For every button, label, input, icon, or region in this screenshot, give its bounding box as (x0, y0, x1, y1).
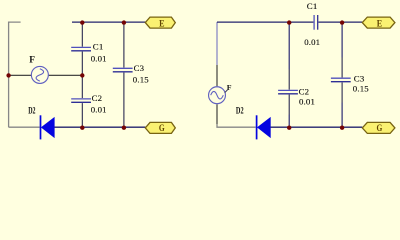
svg-text:E: E (159, 19, 165, 30)
junction at bottom of C2 branch (80, 126, 84, 130)
svg-text:0.01: 0.01 (91, 53, 107, 63)
svg-text:C1: C1 (93, 41, 104, 51)
svg-text:C2: C2 (92, 93, 103, 103)
svg-text:F: F (227, 83, 232, 92)
svg-text:D2: D2 (236, 106, 244, 116)
junction on left rail at F (6, 73, 10, 77)
capacitor C3 (113, 22, 133, 127)
capacitor C2 (71, 75, 91, 127)
wire top rail (navy) (72, 21, 145, 23)
diode D2 (right circuit) (257, 115, 271, 139)
wire top rail left part (navy) (217, 21, 313, 23)
port E (right circuit) (362, 17, 395, 30)
port G (right circuit) (362, 122, 395, 134)
source F (AC source, left circuit) (9, 66, 83, 83)
svg-text:E: E (377, 19, 383, 30)
source F (AC source, right circuit, inline vertical) (209, 65, 226, 124)
svg-text:G: G (377, 123, 383, 134)
junction at bottom of C3 branch (right) (340, 126, 344, 130)
svg-text:C1: C1 (307, 1, 318, 11)
junction at top of C2 branch (right) (287, 20, 291, 24)
diode D2 (left circuit) (41, 115, 55, 139)
capacitor C1 (right circuit, series in top rail) (314, 15, 318, 30)
wire bottom-left segment to diode (gray) (9, 126, 40, 128)
capacitor C2 (right circuit) (278, 22, 298, 127)
svg-text:0.01: 0.01 (91, 104, 107, 114)
svg-text:D2: D2 (28, 107, 36, 117)
wire left rail with top stub (gray) (9, 22, 21, 127)
svg-text:0.15: 0.15 (133, 74, 149, 84)
svg-text:0.15: 0.15 (353, 84, 369, 94)
junction at bottom of C2 branch (right) (287, 126, 291, 130)
wire bottom-left segment to diode (gray) (217, 124, 256, 127)
svg-text:0.01: 0.01 (299, 97, 315, 107)
wire bottom rail diode to port G (navy) (270, 126, 362, 128)
port E (left circuit) (145, 17, 175, 30)
junction at top of C1 branch (80, 20, 84, 24)
capacitor C3 (right circuit) (331, 22, 351, 127)
svg-text:G: G (159, 123, 165, 134)
wire top rail right part (navy) (318, 21, 362, 23)
wire left rail upper (slate blue) (216, 22, 218, 65)
svg-text:C3: C3 (354, 73, 365, 83)
svg-text:C3: C3 (134, 63, 145, 73)
junction at top of C3 branch (right) (340, 20, 344, 24)
pin tick at source F (right) (225, 90, 228, 93)
junction at top of C3 branch (122, 20, 126, 24)
wire bottom rail diode to port G (navy) (54, 126, 145, 128)
svg-text:C2: C2 (299, 86, 310, 96)
port G (left circuit) (145, 122, 175, 134)
capacitor C1 (71, 22, 91, 75)
junction at bottom of C3 branch (122, 126, 126, 130)
svg-text:F: F (29, 55, 35, 65)
junction between C1 and C2 at F (80, 73, 84, 77)
svg-text:0.01: 0.01 (304, 37, 320, 47)
